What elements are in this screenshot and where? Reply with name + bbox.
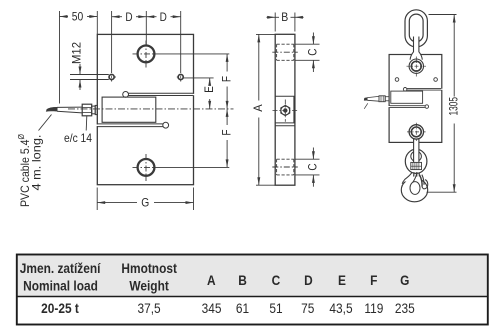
svg-text:B: B bbox=[238, 272, 247, 288]
body outline bbox=[97, 34, 193, 184]
mini lower slot bbox=[389, 105, 428, 109]
bottom threaded hole bbox=[133, 154, 162, 181]
hook bbox=[401, 172, 427, 202]
top boss bbox=[407, 57, 427, 77]
cable boot bbox=[57, 107, 82, 113]
svg-text:E: E bbox=[338, 272, 346, 288]
dimension A bbox=[256, 34, 275, 185]
dimension B bbox=[267, 13, 304, 32]
svg-text:F: F bbox=[370, 272, 377, 288]
dimension G bbox=[97, 188, 193, 211]
middle pocket bbox=[102, 97, 156, 122]
svg-text:C: C bbox=[272, 272, 281, 288]
dimension E bbox=[184, 78, 214, 109]
table data row bbox=[41, 300, 79, 316]
table header separator bbox=[16, 296, 488, 298]
gland hex head-on bbox=[273, 100, 299, 122]
table header texts bbox=[20, 260, 410, 294]
svg-text:4 m. long.: 4 m. long. bbox=[29, 135, 43, 191]
table header background bbox=[17, 256, 488, 297]
mini cable leader bbox=[364, 103, 368, 109]
side body bbox=[275, 34, 295, 185]
side slot lines bbox=[275, 96, 295, 125]
mini slot openings bbox=[441, 89, 443, 90]
table outer border bbox=[17, 255, 488, 325]
svg-text:e/c 14: e/c 14 bbox=[64, 131, 92, 145]
dimension F upper bbox=[226, 54, 228, 109]
mini pocket bbox=[391, 91, 423, 103]
svg-text:Jmen. zatížení: Jmen. zatížení bbox=[20, 260, 101, 276]
svg-text:F: F bbox=[219, 76, 233, 82]
svg-text:Nominal load: Nominal load bbox=[23, 278, 98, 294]
svg-text:43,5: 43,5 bbox=[329, 300, 352, 316]
cable bent tip bbox=[46, 107, 57, 111]
svg-text:M12: M12 bbox=[70, 42, 84, 64]
svg-text:50: 50 bbox=[72, 10, 84, 24]
svg-text:F: F bbox=[219, 129, 233, 135]
svg-text:C: C bbox=[305, 48, 319, 55]
svg-text:D: D bbox=[125, 10, 132, 24]
top threaded hole bbox=[133, 41, 162, 68]
hook latch bits bbox=[414, 172, 420, 176]
mini cable tip bbox=[364, 98, 367, 101]
swivel eye bbox=[405, 149, 427, 173]
eyebolt shank bottom bbox=[414, 139, 420, 163]
svg-text:B: B bbox=[281, 10, 288, 24]
svg-text:345: 345 bbox=[202, 300, 222, 316]
svg-text:C: C bbox=[305, 163, 319, 170]
lower slot bbox=[97, 122, 168, 128]
main horizontal centerline bbox=[68, 108, 234, 110]
dimension F lower bbox=[226, 109, 228, 167]
svg-text:51: 51 bbox=[269, 300, 282, 316]
svg-text:Hmotnost: Hmotnost bbox=[121, 260, 177, 276]
svg-text:20-25 t: 20-25 t bbox=[41, 300, 79, 316]
PVC label leader bbox=[39, 115, 52, 131]
dimension C top bbox=[296, 33, 320, 73]
right M12 screw hole bbox=[177, 74, 183, 81]
svg-text:D: D bbox=[160, 10, 167, 24]
svg-text:119: 119 bbox=[364, 300, 383, 316]
upper slot bbox=[123, 92, 194, 98]
svg-text:A: A bbox=[251, 104, 265, 111]
left M12 screw hole bbox=[109, 74, 116, 81]
swivel barrel bbox=[411, 162, 422, 169]
chain link bbox=[405, 10, 427, 47]
svg-text:G: G bbox=[141, 196, 149, 210]
svg-text:37,5: 37,5 bbox=[138, 300, 161, 316]
M12 callout bbox=[70, 64, 109, 90]
cable gland left view bbox=[82, 104, 97, 116]
dimension C bottom bbox=[296, 148, 320, 187]
dimension 50 bbox=[60, 11, 98, 104]
svg-text:D: D bbox=[304, 272, 313, 288]
svg-text:1305: 1305 bbox=[447, 97, 461, 116]
mini upper slot bbox=[403, 88, 441, 92]
dimension D D bbox=[112, 11, 181, 73]
bottom boss bbox=[407, 123, 426, 141]
projection line from bottom hole bbox=[161, 166, 229, 168]
svg-text:235: 235 bbox=[395, 300, 415, 316]
svg-text:61: 61 bbox=[236, 300, 249, 316]
svg-text:G: G bbox=[400, 272, 409, 288]
slot openings in body edges bbox=[193, 94, 195, 95]
e/c 14 leader bbox=[85, 116, 88, 131]
projection line from top hole bbox=[161, 53, 229, 55]
hidden bottom thread bbox=[277, 159, 294, 175]
eyebolt shank top bbox=[410, 37, 422, 60]
mini small holes bbox=[395, 78, 399, 82]
mini gland bbox=[379, 96, 389, 102]
svg-text:E: E bbox=[202, 86, 216, 93]
hidden top thread bbox=[277, 44, 294, 60]
svg-text:Weight: Weight bbox=[129, 278, 169, 294]
svg-text:75: 75 bbox=[301, 300, 314, 316]
mini cable boot bbox=[367, 96, 379, 101]
mini body bbox=[389, 55, 442, 143]
svg-text:A: A bbox=[207, 272, 216, 288]
dimension 1305 bbox=[427, 15, 457, 193]
